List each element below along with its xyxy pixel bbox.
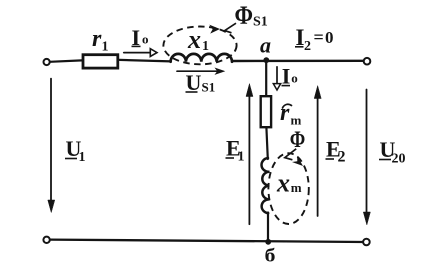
svg-text:1: 1 xyxy=(238,150,245,165)
svg-text:2: 2 xyxy=(338,149,346,166)
svg-text:r: r xyxy=(92,26,102,52)
svg-text:Φ: Φ xyxy=(290,127,306,152)
svg-text:20: 20 xyxy=(392,152,406,167)
svg-text:S1: S1 xyxy=(202,80,216,95)
svg-text:o: o xyxy=(291,71,298,86)
svg-text:x: x xyxy=(187,25,201,54)
svg-text:m: m xyxy=(291,180,302,195)
svg-text:1: 1 xyxy=(79,150,86,165)
svg-text:1: 1 xyxy=(102,40,109,55)
svg-text:2: 2 xyxy=(304,39,311,54)
svg-text:I: I xyxy=(282,64,291,89)
svg-text:o: o xyxy=(142,32,149,47)
svg-text:m: m xyxy=(291,113,302,128)
svg-text:x: x xyxy=(276,169,290,198)
svg-text:1: 1 xyxy=(202,39,209,54)
svg-text:S1: S1 xyxy=(253,15,268,30)
svg-text:Φ: Φ xyxy=(235,1,254,30)
svg-text:б: б xyxy=(265,245,276,266)
svg-text:a: a xyxy=(260,33,271,58)
svg-text:=: = xyxy=(314,27,324,47)
svg-text:0: 0 xyxy=(325,28,334,47)
